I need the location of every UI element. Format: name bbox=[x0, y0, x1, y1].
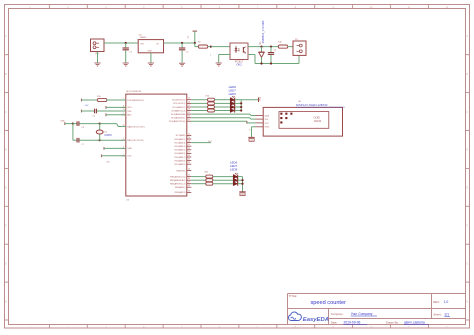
wire P4 to C1 node bbox=[104, 42, 138, 44]
svg-text:RD7(AN19): RD7(AN19) bbox=[175, 163, 186, 166]
svg-text:27: 27 bbox=[188, 151, 190, 153]
svg-text:TITLE:: TITLE: bbox=[289, 294, 298, 298]
svg-text:MCU-16F877A: MCU-16F877A bbox=[126, 90, 141, 93]
svg-text:speed counter: speed counter bbox=[311, 300, 347, 306]
zener diode D1 ZMM5V1 bbox=[259, 20, 266, 63]
junction node crystal bottom bbox=[99, 139, 101, 141]
svg-text:RD1(AN13): RD1(AN13) bbox=[175, 141, 186, 144]
svg-text:PGD(RA5/MCLR): PGD(RA5/MCLR) bbox=[127, 99, 144, 102]
capacitor C1 bbox=[123, 43, 133, 63]
svg-text:30: 30 bbox=[188, 162, 190, 164]
svg-text:22: 22 bbox=[188, 133, 190, 135]
ground (below P4) bbox=[94, 63, 100, 66]
svg-text:RC2(AN11/C): RC2(AN11/C) bbox=[173, 106, 186, 109]
capacitor C7 (crystal bottom) bbox=[73, 138, 100, 146]
svg-text:A: A bbox=[5, 34, 7, 38]
ground (below C1) bbox=[123, 63, 129, 66]
svg-text:RC5(AN5/SCL): RC5(AN5/SCL) bbox=[171, 117, 186, 120]
crystal X1 16MHz bbox=[96, 124, 112, 141]
junction node zener top bbox=[260, 46, 262, 48]
svg-text:R20: R20 bbox=[205, 95, 210, 97]
svg-text:28: 28 bbox=[188, 155, 190, 157]
svg-text:B: B bbox=[466, 72, 468, 76]
Company label and value bbox=[331, 312, 377, 316]
svg-text:GND: GND bbox=[265, 127, 270, 129]
svg-text:C1: C1 bbox=[130, 52, 133, 54]
wire OLED GND pin down bbox=[249, 127, 255, 137]
svg-text:29: 29 bbox=[188, 159, 190, 161]
junction node crystal top bbox=[99, 123, 101, 125]
junction nodes on top cathode rail bbox=[240, 102, 242, 111]
resistor R9 bbox=[195, 42, 211, 49]
resistors R20-R23 and LEDs LED5-LED8 (top bank wires) bbox=[191, 96, 241, 113]
svg-text:F: F bbox=[467, 224, 469, 228]
svg-text:RD3(AN15): RD3(AN15) bbox=[175, 149, 186, 152]
svg-text:G: G bbox=[5, 261, 7, 265]
svg-text:RC1(SOSCI): RC1(SOSCI) bbox=[173, 103, 185, 105]
junction node crystal-left-top bbox=[72, 123, 74, 125]
svg-text:18: 18 bbox=[188, 109, 190, 111]
junction node zener bottom bbox=[260, 62, 262, 64]
svg-text:RC3(AN7/C12): RC3(AN7/C12) bbox=[171, 109, 185, 112]
wire RC6 to OLED VCC with net flag bbox=[191, 121, 255, 124]
svg-text:21: 21 bbox=[188, 119, 190, 121]
microcontroller U3 MCU-16F877A body and pin stubs bbox=[121, 90, 191, 201]
REV label and value bbox=[433, 300, 448, 304]
svg-text:1: 1 bbox=[210, 55, 212, 57]
svg-text:E: E bbox=[5, 186, 7, 190]
title block frame bbox=[288, 294, 466, 325]
svg-text:G: G bbox=[466, 261, 468, 265]
svg-text:19: 19 bbox=[188, 112, 190, 114]
svg-text:RC0(SOSCO): RC0(SOSCO) bbox=[172, 100, 185, 102]
wire crystal top to OSC2 pin bbox=[100, 124, 126, 127]
optocoupler U5 PC817 OK2 bbox=[230, 43, 248, 67]
wire P4 pin2 down to ground bbox=[97, 52, 99, 63]
label U6 bbox=[298, 101, 302, 103]
svg-text:E: E bbox=[466, 186, 468, 190]
wire U4 GND down bbox=[150, 53, 152, 63]
svg-text:34: 34 bbox=[188, 169, 190, 171]
svg-text:RB5(AN13): RB5(AN13) bbox=[175, 191, 186, 194]
svg-text:EasyEDA: EasyEDA bbox=[303, 317, 329, 323]
LED labels LED6 LED7 LED8 (bottom bank) bbox=[230, 161, 238, 172]
svg-text:Drawn By:: Drawn By: bbox=[386, 321, 399, 325]
capacitor C2 bbox=[179, 43, 189, 63]
svg-text:Your Company: Your Company bbox=[351, 312, 373, 316]
svg-text:P5: P5 bbox=[295, 39, 298, 41]
display module U6 DISPLAY-OLED-128X32 bbox=[256, 107, 343, 136]
net flag on MCLR wire bbox=[80, 99, 82, 102]
svg-text:Rx1: Rx1 bbox=[208, 141, 212, 143]
svg-text:AN0: AN0 bbox=[127, 114, 132, 117]
svg-text:LED8: LED8 bbox=[230, 168, 238, 172]
Sheet label and value bbox=[433, 312, 450, 316]
svg-text:+: + bbox=[249, 129, 251, 132]
svg-text:24: 24 bbox=[188, 141, 190, 143]
svg-text:35: 35 bbox=[188, 175, 190, 177]
junction nodes on bottom cathode rail bbox=[241, 179, 243, 185]
svg-text:RB0(INT): RB0(INT) bbox=[177, 170, 186, 172]
resistors R24-R26 and LEDs (bottom bank wires) bbox=[191, 173, 242, 186]
svg-text:37: 37 bbox=[188, 182, 190, 184]
pin numbers of U3 bbox=[123, 98, 190, 193]
svg-text:C7: C7 bbox=[82, 144, 85, 146]
resistor bank label R24 bbox=[205, 172, 210, 174]
svg-text:LED6: LED6 bbox=[229, 92, 237, 96]
svg-text:RC4(AN6/SDA): RC4(AN6/SDA) bbox=[171, 113, 186, 116]
capacitor C6 (crystal top) bbox=[73, 121, 100, 129]
wire OK2 pin2 to ground bbox=[219, 55, 230, 63]
svg-text:RD4(AN16): RD4(AN16) bbox=[175, 152, 186, 155]
svg-text:VDD: VDD bbox=[127, 107, 132, 109]
svg-text:ZMM5V1_C727080: ZMM5V1_C727080 bbox=[261, 20, 265, 43]
wire to AN0 pin bbox=[106, 114, 126, 116]
wire R9 to OK2 pin1 bbox=[211, 46, 230, 48]
ground (below C2) bbox=[179, 63, 185, 66]
resistor R10 (MCLR pull-up) bbox=[81, 96, 125, 102]
ground (below OK2) bbox=[216, 63, 222, 66]
svg-text:R24: R24 bbox=[205, 172, 210, 174]
svg-text:78M05: 78M05 bbox=[140, 37, 147, 39]
svg-text:RC6(AN8/TX/CK): RC6(AN8/TX/CK) bbox=[169, 120, 186, 123]
wire left cap rail bbox=[72, 124, 74, 141]
net flag on AN0 wire bbox=[105, 113, 107, 116]
svg-text:R10: R10 bbox=[278, 42, 283, 44]
svg-text:20: 20 bbox=[188, 116, 190, 118]
capacitor C4 bbox=[268, 47, 277, 64]
wire OK2 pin4 to zener node bbox=[248, 46, 279, 48]
svg-text:GND: GND bbox=[241, 194, 246, 196]
svg-text:SCL: SCL bbox=[265, 119, 270, 121]
svg-text:U3: U3 bbox=[126, 199, 130, 201]
svg-text:glenn.cadoma: glenn.cadoma bbox=[404, 321, 425, 325]
svg-text:RB1(AN10/C2a): RB1(AN10/C2a) bbox=[170, 175, 185, 178]
svg-text:VSS: VSS bbox=[127, 111, 132, 113]
svg-text:A: A bbox=[466, 34, 468, 38]
svg-text:RD2(AN14): RD2(AN14) bbox=[175, 145, 186, 148]
wire step down to R9 bbox=[194, 43, 196, 47]
svg-text:1/1: 1/1 bbox=[444, 312, 449, 316]
svg-text:23: 23 bbox=[188, 137, 190, 139]
title label bbox=[289, 294, 298, 298]
resistor bank label R20 bbox=[205, 95, 210, 97]
EasyEDA logo bbox=[289, 312, 330, 323]
svg-text:C4: C4 bbox=[274, 49, 277, 51]
svg-text:16: 16 bbox=[188, 101, 190, 103]
svg-text:RB3(AN9/SCL2): RB3(AN9/SCL2) bbox=[170, 183, 186, 186]
ground flag (bottom LED bank) bbox=[239, 192, 245, 197]
svg-text:RB2(AN8/SDA2): RB2(AN8/SDA2) bbox=[170, 179, 186, 182]
LED labels LED8 LED7 LED6 (top bank) bbox=[229, 85, 237, 96]
net flag wire GND pin bbox=[104, 147, 126, 150]
svg-text:36: 36 bbox=[188, 178, 190, 180]
svg-text:D: D bbox=[466, 148, 468, 152]
svg-text:Company:: Company: bbox=[331, 312, 344, 316]
junction node +5V at C2 bbox=[181, 42, 183, 44]
svg-text:F: F bbox=[5, 224, 7, 228]
svg-text:RD6(AN18): RD6(AN18) bbox=[175, 159, 186, 162]
svg-text:C5: C5 bbox=[93, 116, 96, 118]
svg-text:RD0(AN12): RD0(AN12) bbox=[175, 138, 186, 141]
svg-text:GND: GND bbox=[250, 140, 255, 142]
capacitor C5 (decoupling) bbox=[81, 109, 125, 118]
connector P4 (DC input screw terminal) bbox=[91, 39, 105, 56]
wire rail to GND flag bbox=[241, 99, 258, 101]
wire RD1 net stub with label bbox=[191, 141, 212, 143]
svg-text:C2: C2 bbox=[186, 52, 189, 54]
svg-text:RB4(AN11): RB4(AN11) bbox=[175, 186, 186, 189]
svg-text:RD5(AN17): RD5(AN17) bbox=[175, 156, 186, 159]
svg-text:OLED: OLED bbox=[314, 118, 321, 120]
svg-text:VIN: VIN bbox=[140, 43, 144, 45]
net label +5V (left) bbox=[84, 105, 88, 107]
svg-text:+5V: +5V bbox=[84, 105, 88, 107]
wire LED cathode rail (top bank) bbox=[240, 100, 242, 111]
svg-text:R9: R9 bbox=[198, 42, 201, 44]
svg-text:GND: GND bbox=[148, 51, 153, 53]
svg-text:Date:: Date: bbox=[331, 321, 338, 325]
svg-text:15: 15 bbox=[188, 98, 190, 100]
title value speed counter bbox=[311, 300, 347, 306]
junction node C4 top bbox=[270, 46, 272, 48]
net label DISPLAY-OLED-128X32 bbox=[296, 103, 345, 107]
svg-text:38: 38 bbox=[188, 185, 190, 187]
svg-text:C: C bbox=[466, 110, 468, 114]
svg-text:26: 26 bbox=[188, 148, 190, 150]
svg-text:DISPLAY-OLED-128X32: DISPLAY-OLED-128X32 bbox=[296, 103, 328, 107]
pin names inside U3 bbox=[127, 99, 185, 194]
Date label and value bbox=[331, 321, 367, 325]
power flag +5V (top chain) bbox=[188, 31, 197, 43]
voltage regulator U4 78M05 bbox=[138, 34, 163, 53]
svg-text:39: 39 bbox=[188, 190, 190, 192]
wire bottom rail to P5 bbox=[255, 55, 299, 63]
svg-text:+5V: +5V bbox=[106, 161, 110, 163]
svg-text:RC7(AN9): RC7(AN9) bbox=[176, 134, 186, 137]
net flag wire OSC pin bbox=[102, 154, 126, 157]
svg-text:H: H bbox=[466, 299, 468, 303]
wire OK2 pin3 to bottom rail bbox=[248, 55, 255, 64]
wire crystal bottom to OSC1 pin bbox=[100, 139, 126, 141]
svg-text:C6: C6 bbox=[82, 127, 85, 129]
wire LED cathode rail (bottom bank) bbox=[242, 177, 244, 192]
ground flag (crystal left) bbox=[60, 121, 73, 125]
svg-text:OK2: OK2 bbox=[236, 63, 242, 67]
svg-text:C: C bbox=[5, 110, 7, 114]
svg-text:RA6(OSC2/CLKO): RA6(OSC2/CLKO) bbox=[127, 125, 145, 128]
svg-text:128x32: 128x32 bbox=[314, 121, 322, 123]
svg-text:REV:: REV: bbox=[433, 300, 440, 304]
pin 1 marker of OK2 bbox=[210, 55, 212, 57]
svg-text:17: 17 bbox=[188, 105, 190, 107]
resistor R10 (output) bbox=[278, 42, 293, 49]
svg-text:16MHz: 16MHz bbox=[104, 134, 112, 137]
svg-text:B: B bbox=[5, 72, 7, 76]
svg-text:VCC: VCC bbox=[265, 123, 270, 125]
net label +5V (bottom left) bbox=[106, 161, 110, 163]
svg-text:C3: C3 bbox=[188, 35, 190, 38]
junction node C4 bottom bbox=[270, 62, 272, 64]
junction node at +5V flag bbox=[194, 42, 196, 44]
svg-text:H: H bbox=[5, 299, 7, 303]
svg-text:1.0: 1.0 bbox=[444, 300, 449, 304]
junction node VIN bbox=[125, 42, 127, 44]
junction node R9/PC817 bbox=[210, 46, 212, 48]
Drawn By label and value bbox=[386, 321, 429, 325]
wire U4 VO to C2 node bbox=[164, 42, 195, 44]
ground (below U4) bbox=[148, 63, 154, 66]
svg-text:Sheet:: Sheet: bbox=[433, 312, 441, 316]
wire to VDD pin bbox=[106, 106, 126, 108]
ground flag (below OLED) bbox=[248, 137, 254, 142]
svg-text:RA7(OSC1/CLKI): RA7(OSC1/CLKI) bbox=[127, 139, 144, 142]
svg-text:OSC: OSC bbox=[127, 156, 132, 158]
svg-text:SDA: SDA bbox=[265, 114, 270, 117]
connector P5 (pulse output) bbox=[293, 39, 306, 56]
net flag on VDD wire bbox=[105, 106, 107, 109]
svg-text:R10: R10 bbox=[97, 96, 102, 98]
svg-text:2019-09-06: 2019-09-06 bbox=[344, 321, 361, 325]
wire RC4 to OLED SDA bbox=[191, 114, 255, 115]
svg-text:GND: GND bbox=[259, 96, 261, 101]
svg-text:VO: VO bbox=[156, 43, 159, 45]
svg-text:25: 25 bbox=[188, 144, 190, 146]
svg-text:D: D bbox=[5, 148, 7, 152]
svg-text:U4: U4 bbox=[139, 34, 143, 36]
ground flag (top LED bank) bbox=[259, 96, 262, 102]
wire RC5 to OLED SCL bbox=[191, 118, 255, 119]
svg-text:GND: GND bbox=[127, 148, 132, 150]
